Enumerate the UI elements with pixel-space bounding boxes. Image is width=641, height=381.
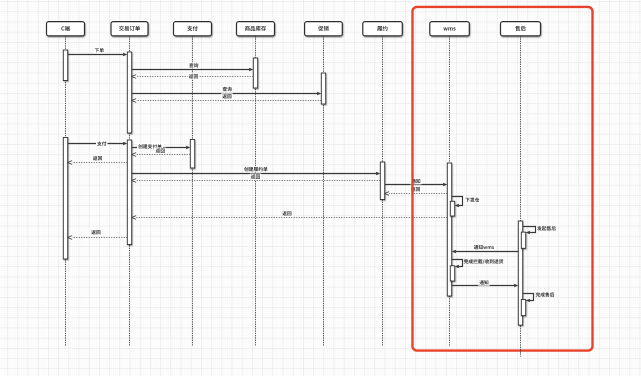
activation 履约 (380, 162, 384, 200)
message 创建支付单 (132, 143, 191, 149)
message 返回 促销→交易订单 (132, 93, 322, 102)
lifeline wms (449, 36, 451, 347)
self message 完成售后 (523, 292, 555, 302)
red highlight frame (413, 7, 593, 351)
lifeline 促销 (323, 36, 325, 346)
actor 售后 (501, 22, 541, 36)
actor 履约 (363, 22, 403, 36)
message 返回 商品库存→交易订单 (132, 73, 254, 79)
self message 完成拦截/收到退货 (452, 259, 504, 268)
actor 支付 (174, 22, 212, 36)
activation wms nested 下发仓 (450, 201, 454, 216)
message 通知 履约→wms (385, 178, 448, 186)
lifeline C端 (65, 36, 67, 346)
activation 交易订单 #1 (127, 52, 131, 133)
actor wms (430, 22, 470, 36)
message 查询 商品库存 (132, 62, 254, 71)
lifeline 售后 over frame (520, 349, 522, 353)
message 通知wms (452, 244, 519, 253)
self message 下发仓 (452, 197, 480, 208)
actor C端 (47, 22, 85, 36)
activation 商品库存 (253, 58, 257, 88)
activation C端 #1 (63, 50, 67, 81)
actor 交易订单 (111, 22, 148, 36)
activation C端 #2 (63, 138, 67, 260)
message 返回 支付→交易订单 (132, 148, 191, 157)
message 支付 (68, 141, 128, 147)
message 下单 (68, 47, 128, 56)
lifeline 商品库存 (255, 36, 257, 346)
lifeline 售后 (520, 36, 522, 357)
message 返回 交易订单→C端 #2 (68, 229, 128, 239)
self message 发起售后 (523, 226, 556, 234)
activation 售后 main (518, 221, 522, 325)
message 返回 履约→交易订单 (132, 174, 381, 183)
activation 售后 nested 完成售后 (521, 300, 525, 316)
actor 商品库存 (237, 22, 275, 36)
activation wms main (447, 163, 451, 296)
lifeline 支付 (192, 36, 194, 346)
lifeline 履约 (382, 36, 384, 346)
activation 交易订单 #2 (127, 140, 131, 245)
message 返回 wms→履约 (385, 186, 448, 195)
actor 促销 (305, 22, 343, 36)
message 通知 wms→售后 (452, 279, 519, 287)
message 查询 促销 (132, 86, 322, 95)
message 返回 wms→交易订单 (132, 210, 448, 219)
activation wms nested 完成拦截 (450, 266, 454, 281)
activation 促销 (321, 73, 325, 104)
lifeline 交易订单 (129, 36, 131, 346)
activation 支付 (190, 140, 194, 169)
activation 售后 nested 发起售后 (521, 232, 525, 248)
message 创建履约单 (132, 166, 381, 175)
message 返回 交易订单→C端 (68, 155, 128, 164)
